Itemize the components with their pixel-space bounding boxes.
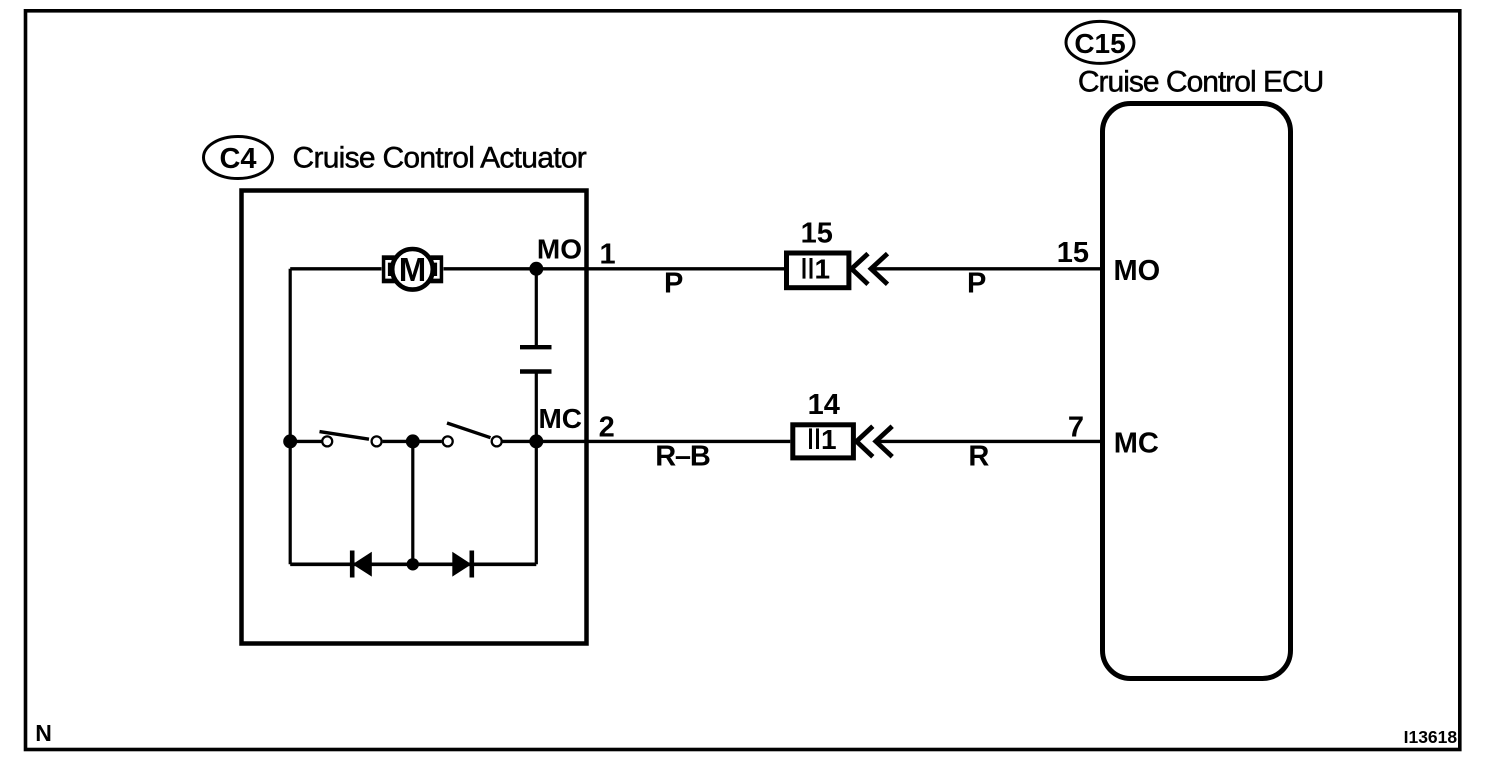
svg-text:MC: MC — [1114, 427, 1159, 459]
svg-text:Cruise Control Actuator: Cruise Control Actuator — [293, 141, 587, 174]
svg-text:MO: MO — [1114, 255, 1161, 287]
svg-text:C15: C15 — [1074, 28, 1125, 59]
svg-text:MC: MC — [538, 403, 582, 434]
svg-text:2: 2 — [599, 411, 615, 443]
svg-text:15: 15 — [1057, 237, 1089, 269]
svg-text:R: R — [968, 441, 989, 473]
svg-text:MO: MO — [537, 234, 582, 265]
svg-text:14: 14 — [808, 389, 840, 421]
svg-text:Cruise Control ECU: Cruise Control ECU — [1078, 65, 1323, 98]
svg-text:1: 1 — [815, 254, 831, 285]
svg-text:P: P — [664, 268, 683, 300]
svg-text:M: M — [399, 251, 427, 288]
svg-text:P: P — [967, 268, 986, 300]
svg-text:1: 1 — [821, 424, 837, 455]
svg-text:N: N — [35, 720, 52, 746]
svg-text:7: 7 — [1068, 411, 1084, 443]
svg-text:1: 1 — [600, 239, 616, 271]
svg-text:R–B: R–B — [655, 441, 710, 473]
svg-text:15: 15 — [801, 218, 833, 250]
svg-text:C4: C4 — [219, 143, 256, 175]
svg-text:I13618: I13618 — [1404, 727, 1458, 747]
